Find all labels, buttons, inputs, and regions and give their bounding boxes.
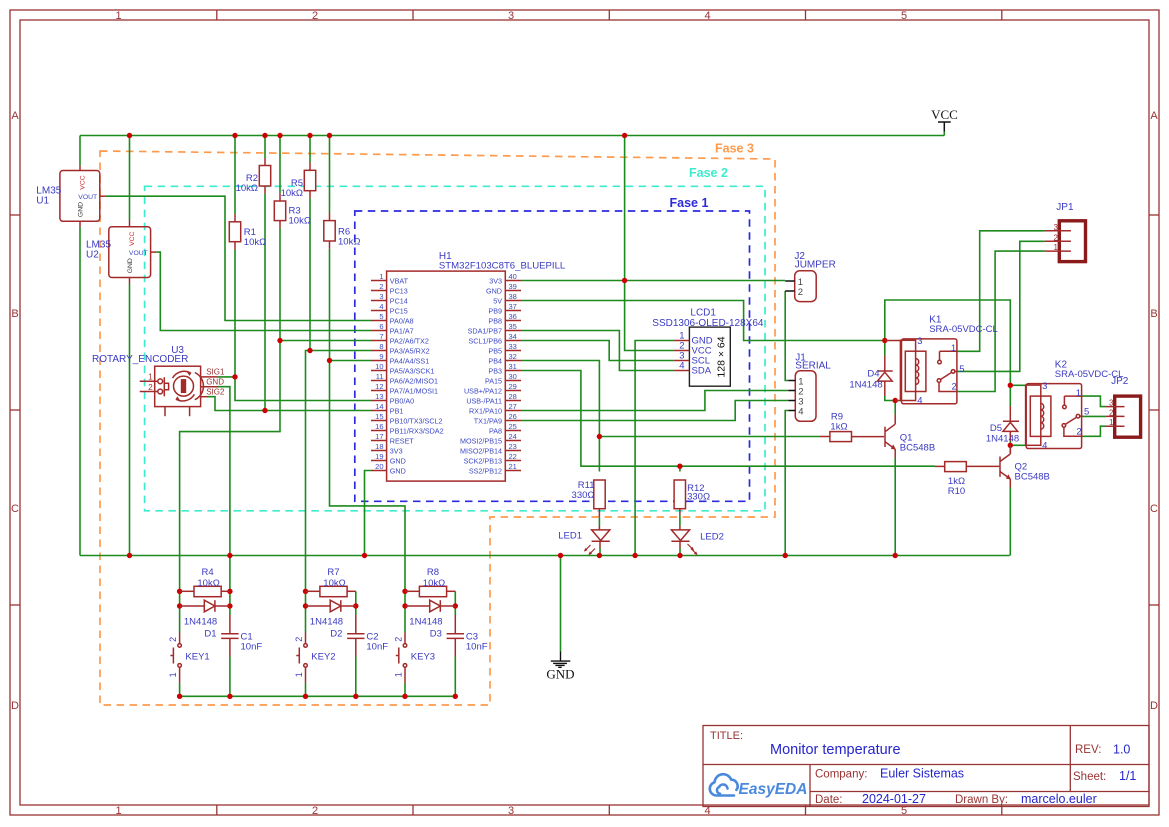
svg-text:1N4148: 1N4148 [849, 379, 882, 390]
svg-text:GND: GND [390, 456, 406, 465]
svg-text:2: 2 [1054, 233, 1059, 242]
svg-text:SDA1/PB7: SDA1/PB7 [468, 326, 502, 335]
svg-text:36: 36 [509, 312, 517, 321]
svg-text:marcelo.euler: marcelo.euler [1021, 792, 1097, 806]
frame column labels top [115, 10, 907, 22]
svg-text:D4: D4 [867, 368, 879, 379]
svg-text:PA15: PA15 [485, 376, 502, 385]
transistor Q1 BC548B [852, 415, 896, 459]
wire K2 pin3 stub [1010, 384, 1025, 386]
svg-text:4: 4 [1042, 440, 1047, 451]
wire K2 pin1 to JP2 pin3 [1083, 396, 1107, 407]
svg-text:6: 6 [379, 322, 383, 331]
wire K1 pin1 to JP1 pin3 [957, 231, 1045, 351]
wire LED1 to ground rail [599, 548, 601, 556]
svg-text:SS2/PB12: SS2/PB12 [469, 466, 502, 475]
svg-text:1kΩ: 1kΩ [830, 422, 847, 433]
svg-text:A: A [1150, 110, 1158, 122]
frame row ticks right [1149, 215, 1159, 605]
svg-text:25: 25 [509, 422, 517, 431]
svg-text:PC14: PC14 [390, 296, 408, 305]
wire MCU pin7 [280, 340, 371, 342]
wire R1 column and pin13 [234, 136, 236, 215]
svg-text:TITLE:: TITLE: [710, 730, 743, 742]
svg-text:2: 2 [1109, 408, 1114, 417]
svg-text:2: 2 [148, 383, 153, 392]
svg-text:8: 8 [379, 342, 383, 351]
wire MCU pin35 SDA to LCD pin4 [521, 331, 674, 371]
diode D1 1N4148 [180, 600, 230, 612]
frame row labels left [11, 110, 19, 712]
resistor R1 [229, 214, 240, 250]
svg-text:PA8: PA8 [489, 426, 502, 435]
svg-text:VOUT: VOUT [78, 194, 97, 201]
svg-text:30: 30 [509, 372, 517, 381]
connector J2 JUMPER [785, 271, 816, 302]
svg-text:C: C [11, 503, 19, 515]
svg-text:VCC: VCC [931, 107, 958, 122]
svg-text:PA3/A5/RX2: PA3/A5/RX2 [390, 346, 430, 355]
svg-text:10nF: 10nF [241, 641, 263, 652]
svg-text:A: A [11, 110, 19, 122]
wire U1 VCC drop [79, 136, 81, 166]
svg-text:3: 3 [508, 805, 514, 817]
wire KEY2 left column lower [305, 591, 307, 632]
wire Q1 emitter to ground rail [894, 458, 896, 556]
wire K2 pin4 to Q2 collector [1010, 444, 1025, 446]
svg-text:1: 1 [1054, 243, 1059, 252]
wire LCD pin1 GND drop [635, 341, 674, 556]
resistor R10 [935, 462, 966, 472]
svg-text:LED2: LED2 [700, 532, 724, 543]
svg-text:ROTARY_ENCODER: ROTARY_ENCODER [92, 354, 188, 365]
svg-text:LED1: LED1 [558, 531, 582, 542]
svg-text:B: B [1150, 308, 1157, 320]
Fase 2 dashed region [145, 186, 765, 511]
svg-text:2: 2 [294, 637, 304, 642]
svg-text:14: 14 [375, 402, 383, 411]
svg-text:VOUT: VOUT [129, 250, 148, 257]
svg-text:4: 4 [704, 10, 710, 22]
svg-text:GND: GND [390, 466, 406, 475]
junction dots ground rail [127, 553, 132, 558]
diode D5 1N4148 [1003, 406, 1019, 441]
svg-text:2024-01-27: 2024-01-27 [862, 792, 926, 806]
svg-text:KEY2: KEY2 [311, 651, 335, 662]
relay K1 SRA-05VDC-CL [885, 336, 965, 406]
wire R3 column pin7 and KEY1 feed [279, 136, 281, 194]
svg-text:D2: D2 [330, 629, 342, 640]
svg-text:1N4148: 1N4148 [310, 616, 343, 627]
svg-text:BC548B: BC548B [1015, 471, 1050, 482]
svg-text:1N4148: 1N4148 [986, 433, 1019, 444]
svg-text:17: 17 [375, 432, 383, 441]
relay K2 SRA-05VDC-CL [1026, 381, 1090, 451]
svg-text:10kΩ: 10kΩ [281, 188, 303, 199]
svg-text:STM32F103C8T6_BLUEPILL: STM32F103C8T6_BLUEPILL [439, 261, 566, 272]
svg-text:D1: D1 [204, 629, 216, 640]
resistor R12 [674, 480, 685, 515]
svg-text:SCK2/PB13: SCK2/PB13 [464, 456, 502, 465]
wire encoder SIG1 to R1 column [218, 376, 235, 378]
VCC power symbol [931, 107, 958, 132]
transistor Q2 BC548B [966, 445, 1011, 487]
svg-text:128 × 64: 128 × 64 [716, 336, 728, 377]
svg-text:SIG1: SIG1 [206, 367, 225, 376]
svg-text:23: 23 [509, 442, 517, 451]
svg-text:SRA-05VDC-CL: SRA-05VDC-CL [929, 324, 998, 335]
svg-text:PB9: PB9 [488, 306, 502, 315]
svg-text:2: 2 [952, 382, 957, 393]
connector JP1 [1045, 221, 1086, 262]
resistor R9 [820, 432, 852, 442]
svg-text:1N4148: 1N4148 [184, 616, 217, 627]
svg-text:1: 1 [294, 672, 304, 677]
wire KEY3 right column [454, 591, 456, 615]
svg-text:12: 12 [375, 382, 383, 391]
svg-text:2: 2 [312, 10, 318, 22]
svg-text:Drawn By:: Drawn By: [955, 794, 1008, 806]
svg-text:5: 5 [959, 364, 964, 375]
svg-text:5: 5 [379, 312, 383, 321]
wire GND symbol drop [560, 556, 562, 652]
svg-text:27: 27 [509, 402, 517, 411]
svg-text:330Ω: 330Ω [687, 492, 710, 503]
wire encoder SIG2 to MCU pin14 [208, 397, 371, 411]
wire Q2 emitter to ground rail [1009, 488, 1011, 556]
svg-text:REV:: REV: [1075, 744, 1101, 756]
svg-text:15: 15 [375, 412, 383, 421]
svg-text:C: C [1150, 503, 1158, 515]
svg-text:MOSI2/PB15: MOSI2/PB15 [460, 436, 502, 445]
wire K1 pin5 to JP1 pin2 [957, 241, 1045, 371]
Fase 1 dashed region [355, 211, 750, 501]
svg-text:1N4148: 1N4148 [409, 616, 442, 627]
svg-text:10kΩ: 10kΩ [323, 578, 345, 589]
svg-text:2: 2 [379, 282, 383, 291]
svg-text:4: 4 [679, 361, 684, 372]
svg-text:10kΩ: 10kΩ [289, 215, 311, 226]
svg-text:Date:: Date: [815, 794, 843, 806]
wire U1 GND drop [79, 227, 81, 556]
frame column ticks bottom [217, 805, 1002, 815]
svg-text:3: 3 [508, 10, 514, 22]
diode D4 1N4148 [877, 356, 892, 397]
pushbutton KEY3 [394, 633, 407, 683]
wire R11 to LED1 column [598, 517, 600, 526]
wire J2 pin2 to J1 pin1 [785, 291, 788, 381]
svg-text:22: 22 [509, 452, 517, 461]
svg-text:3: 3 [1042, 381, 1047, 392]
svg-text:3: 3 [1109, 399, 1114, 408]
LCD1 SSD1306 OLED module [674, 327, 730, 386]
wire MCU pin9 [330, 360, 372, 362]
junction dots relay section [882, 338, 887, 343]
svg-text:SSD1306-OLED-128X64: SSD1306-OLED-128X64 [652, 318, 764, 329]
svg-text:KEY1: KEY1 [185, 651, 209, 662]
resistor R8 [405, 586, 455, 596]
wire R12 top lead riser [679, 466, 681, 471]
svg-text:1: 1 [379, 272, 383, 281]
svg-text:3V3: 3V3 [390, 446, 403, 455]
wire U1 VOUT to MCU pin5 [106, 196, 371, 320]
wire U2 VOUT to MCU pin6 [156, 252, 371, 330]
wire U2 VCC drop [129, 136, 131, 221]
wire encoder GND to ground rail [218, 387, 230, 556]
capacitor C2 10nF [347, 615, 364, 657]
svg-text:18: 18 [375, 442, 383, 451]
svg-text:PA1/A7: PA1/A7 [390, 326, 414, 335]
wire MCU pin32 PB4 to R11 and R9 [521, 361, 599, 472]
wire K1 pin2 to JP1 pin1 [957, 251, 1045, 391]
svg-text:R4: R4 [202, 567, 214, 578]
connector J1 SERIAL [788, 371, 816, 422]
svg-text:1: 1 [394, 672, 404, 677]
wire MCU pin34 SCL to LCD pin3 [521, 341, 674, 361]
svg-text:GND: GND [546, 667, 574, 682]
wire R2 column to pin14 row [264, 136, 266, 159]
svg-text:PA6/A2/MISO1: PA6/A2/MISO1 [390, 376, 438, 385]
svg-text:PB3: PB3 [488, 366, 502, 375]
svg-text:PB5: PB5 [488, 346, 502, 355]
wire KEY1 right column to ground rail [229, 556, 231, 616]
wire 3V3 riser to VCC rail and LCD VCC [625, 136, 675, 351]
svg-text:1: 1 [951, 343, 956, 354]
svg-text:PA2/A6/TX2: PA2/A6/TX2 [390, 336, 429, 345]
svg-text:35: 35 [509, 322, 517, 331]
title block outline [703, 726, 1149, 807]
svg-text:4: 4 [917, 396, 922, 407]
svg-text:34: 34 [509, 332, 517, 341]
wire K2 pin5 to JP2 pin2 [1083, 415, 1107, 417]
svg-text:U2: U2 [86, 250, 99, 261]
Fase 3 dashed region [100, 151, 775, 705]
svg-text:JP1: JP1 [1056, 202, 1074, 213]
svg-text:5V: 5V [493, 296, 502, 305]
LM35 U2 [109, 220, 157, 284]
svg-text:10kΩ: 10kΩ [197, 578, 219, 589]
wire J1 pin4 to ground rail [785, 411, 788, 556]
svg-text:GND: GND [78, 202, 85, 217]
svg-text:SCL1/PB6: SCL1/PB6 [468, 336, 502, 345]
wire K1 coil link to K2 coil [885, 300, 1011, 385]
wire MCU pin27 RX1 to J1 pin2 [521, 391, 788, 411]
svg-text:1.0: 1.0 [1113, 743, 1130, 757]
svg-text:TX1/PA9: TX1/PA9 [474, 416, 502, 425]
svg-text:Fase 3: Fase 3 [715, 142, 754, 156]
svg-text:R7: R7 [327, 567, 339, 578]
svg-text:10kΩ: 10kΩ [244, 237, 266, 248]
svg-text:GND: GND [206, 377, 224, 386]
svg-text:32: 32 [509, 352, 517, 361]
wire KEY1 left column lower [179, 591, 181, 632]
frame column ticks top [217, 10, 1002, 20]
svg-text:PB1: PB1 [390, 406, 404, 415]
resistor R7 [306, 586, 356, 596]
wire D4 top to K1 pin3 node [884, 341, 886, 356]
svg-text:4: 4 [379, 302, 383, 311]
wire D5 leads [1009, 385, 1011, 406]
svg-text:3: 3 [917, 336, 922, 347]
svg-text:29: 29 [509, 382, 517, 391]
wire MCU pin8 and KEY2 feed [306, 351, 372, 592]
svg-text:USB-/PA11: USB-/PA11 [466, 396, 502, 405]
capacitor C1 10nF [221, 615, 238, 657]
svg-text:SIG2: SIG2 [206, 387, 225, 396]
svg-text:5: 5 [1084, 407, 1089, 418]
svg-text:2: 2 [1076, 426, 1081, 437]
svg-text:PA0/A8: PA0/A8 [390, 316, 414, 325]
svg-text:PB0/A0: PB0/A0 [390, 396, 414, 405]
svg-text:10nF: 10nF [466, 641, 488, 652]
svg-text:MISO2/PB14: MISO2/PB14 [460, 446, 502, 455]
svg-text:37: 37 [509, 302, 517, 311]
wire K1 pin4 node to Q1 collector [885, 396, 895, 401]
svg-text:GND: GND [127, 258, 134, 273]
svg-text:PB11/RX3/SDA2: PB11/RX3/SDA2 [390, 426, 444, 435]
svg-text:10: 10 [375, 362, 383, 371]
resistor R5 [304, 163, 315, 199]
resistor R3 [274, 193, 285, 228]
frame row labels right [1150, 110, 1158, 712]
svg-text:2: 2 [312, 805, 318, 817]
svg-text:1: 1 [115, 805, 121, 817]
svg-text:21: 21 [509, 462, 517, 471]
wire GND bottom rail [80, 555, 1010, 557]
svg-text:3: 3 [1054, 223, 1059, 232]
pushbutton KEY1 [168, 633, 181, 683]
svg-text:LCD1: LCD1 [690, 308, 716, 319]
wire MCU pin20 to ground rail [365, 471, 372, 556]
svg-text:USB+/PA12: USB+/PA12 [464, 386, 502, 395]
svg-text:7: 7 [379, 332, 383, 341]
LED1 [584, 526, 610, 555]
svg-text:RESET: RESET [390, 436, 415, 445]
resistor R4 [180, 586, 230, 596]
svg-text:9: 9 [379, 352, 383, 361]
svg-text:B: B [11, 308, 18, 320]
svg-text:10kΩ: 10kΩ [236, 183, 258, 194]
svg-text:Sheet:: Sheet: [1073, 771, 1106, 783]
svg-text:BC548B: BC548B [900, 443, 935, 454]
wire MCU pin26 TX1 to J1 pin3 [521, 401, 788, 421]
svg-text:2: 2 [168, 637, 178, 642]
frame row ticks left [10, 215, 20, 605]
svg-text:1: 1 [115, 10, 121, 22]
wire R5 column [309, 136, 311, 163]
resistor R2 [259, 158, 270, 194]
connector JP2 [1106, 396, 1141, 437]
svg-text:10nF: 10nF [366, 641, 388, 652]
diode D2 1N4148 [306, 600, 356, 612]
svg-text:2: 2 [798, 287, 803, 298]
junction dots midfield [232, 374, 237, 379]
svg-text:PC13: PC13 [390, 286, 408, 295]
svg-text:SDA: SDA [692, 366, 712, 377]
svg-text:PB8: PB8 [488, 316, 502, 325]
GND earth symbol [551, 652, 571, 668]
svg-text:Monitor temperature: Monitor temperature [770, 742, 901, 758]
svg-text:VCC: VCC [129, 231, 136, 245]
wire MCU pin38 5V to relay K1 coil [521, 301, 885, 341]
svg-text:R8: R8 [427, 567, 439, 578]
svg-text:VCC: VCC [80, 175, 87, 189]
svg-text:20: 20 [375, 462, 383, 471]
svg-text:1: 1 [1109, 418, 1114, 427]
svg-text:PB4: PB4 [488, 356, 502, 365]
svg-text:10kΩ: 10kΩ [338, 237, 360, 248]
frame column labels bottom [115, 805, 907, 817]
wire R6 column pin9 and KEY3 feed [329, 136, 331, 214]
diode D3 1N4148 [405, 600, 455, 612]
svg-text:5: 5 [901, 10, 907, 22]
svg-text:38: 38 [509, 292, 517, 301]
wire MCU pin31 PB3 to R12 and R10 [521, 371, 935, 467]
svg-text:SERIAL: SERIAL [795, 360, 831, 371]
wire VCC top rail [80, 135, 944, 137]
svg-text:PC15: PC15 [390, 306, 408, 315]
svg-text:1: 1 [148, 373, 153, 382]
svg-text:3: 3 [379, 292, 383, 301]
svg-text:RX1/PA10: RX1/PA10 [469, 406, 502, 415]
wire LED2 to ground rail [679, 548, 681, 556]
svg-text:PA5/A3/SCK1: PA5/A3/SCK1 [390, 366, 435, 375]
svg-text:33: 33 [509, 342, 517, 351]
wire KEY2 right column [355, 591, 357, 615]
svg-text:330Ω: 330Ω [572, 490, 595, 501]
svg-text:31: 31 [509, 362, 517, 371]
wire MCU pin40 3V3 to J2 pin1 [521, 280, 785, 282]
svg-text:26: 26 [509, 412, 517, 421]
svg-text:1: 1 [1076, 388, 1081, 399]
svg-text:U1: U1 [36, 195, 49, 206]
svg-text:SRA-05VDC-CL: SRA-05VDC-CL [1055, 369, 1124, 380]
svg-text:1: 1 [168, 672, 178, 677]
svg-text:Company:: Company: [815, 769, 867, 781]
svg-text:4: 4 [798, 407, 803, 418]
pushbutton KEY2 [294, 633, 307, 683]
svg-text:39: 39 [509, 282, 517, 291]
svg-text:JUMPER: JUMPER [795, 260, 836, 271]
junction dots key blocks [177, 589, 182, 594]
resistor R6 [324, 213, 335, 249]
LM35 U1 [60, 166, 106, 228]
wire K2 pin2 to JP2 pin1 [1083, 426, 1107, 436]
EasyEDA logo cloud [710, 774, 738, 795]
svg-text:1/1: 1/1 [1119, 769, 1136, 783]
junction dots top rail [127, 133, 132, 138]
svg-text:2: 2 [394, 637, 404, 642]
svg-text:D: D [11, 700, 19, 712]
wire R12 to LED2 column [679, 515, 681, 526]
svg-text:D3: D3 [430, 629, 442, 640]
svg-text:PA7/A1/MOSI1: PA7/A1/MOSI1 [390, 386, 438, 395]
svg-text:EasyEDA: EasyEDA [739, 781, 808, 798]
resistor R11 [594, 480, 605, 517]
svg-text:24: 24 [509, 432, 517, 441]
svg-text:Fase 2: Fase 2 [689, 166, 728, 180]
svg-text:19: 19 [375, 452, 383, 461]
svg-text:PA4/A4/SS1: PA4/A4/SS1 [390, 356, 429, 365]
svg-text:10kΩ: 10kΩ [423, 578, 445, 589]
svg-text:28: 28 [509, 392, 517, 401]
svg-text:Fase 1: Fase 1 [670, 196, 709, 210]
svg-text:VBAT: VBAT [390, 276, 409, 285]
wire KEY3 left column lower [404, 591, 406, 632]
svg-text:16: 16 [375, 422, 383, 431]
svg-text:3V3: 3V3 [489, 276, 502, 285]
svg-text:KEY3: KEY3 [411, 651, 435, 662]
